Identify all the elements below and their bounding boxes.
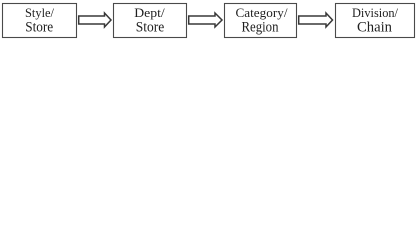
label Store (box 1) bbox=[25, 20, 53, 36]
svg-text:Region: Region bbox=[242, 20, 279, 36]
background bbox=[0, 0, 417, 40]
label Category/ bbox=[236, 6, 289, 20]
label Division/ bbox=[352, 6, 399, 20]
svg-text:Chain: Chain bbox=[357, 20, 392, 36]
svg-text:Style/: Style/ bbox=[25, 6, 55, 20]
svg-text:Division/: Division/ bbox=[352, 6, 399, 20]
label Style/ bbox=[25, 6, 55, 20]
label Dept/ bbox=[134, 6, 165, 20]
svg-text:Category/: Category/ bbox=[236, 6, 289, 20]
label Store (box 2) bbox=[136, 20, 165, 36]
box Category/Region bbox=[225, 4, 297, 38]
svg-text:Store: Store bbox=[25, 20, 53, 36]
box Division/Chain bbox=[336, 4, 415, 38]
label Chain bbox=[357, 20, 392, 36]
box Dept/Store bbox=[114, 4, 187, 38]
arrow 3 bbox=[299, 13, 333, 27]
label Region bbox=[242, 20, 279, 36]
svg-text:Store: Store bbox=[136, 20, 165, 36]
box Style/Store bbox=[3, 4, 77, 38]
arrow 1 bbox=[79, 13, 111, 27]
svg-text:Dept/: Dept/ bbox=[134, 6, 165, 20]
arrow 2 bbox=[189, 13, 222, 27]
